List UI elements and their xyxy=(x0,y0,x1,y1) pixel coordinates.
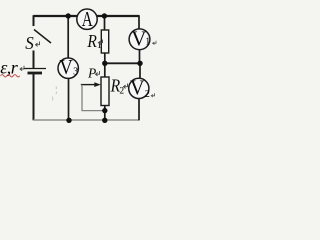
red squiggle under epsilon,r xyxy=(1,75,20,77)
voltmeter V1 circle xyxy=(129,29,150,50)
linebreak mark after P xyxy=(96,71,100,76)
svg-text:S: S xyxy=(25,33,34,53)
wire: V2 bottom lead xyxy=(138,99,140,121)
faint artifact dash upper xyxy=(55,87,57,95)
svg-text:V: V xyxy=(59,55,72,79)
wire: R2 top lead xyxy=(104,63,106,77)
voltmeter V2 (bottom right) circle xyxy=(129,78,149,98)
wire: left vertical stub above switch xyxy=(33,15,35,26)
svg-text:P: P xyxy=(87,65,96,80)
svg-text:R: R xyxy=(87,31,97,51)
wire: R1 bottom lead xyxy=(104,53,106,63)
node: V1 bottom / middle wire xyxy=(137,61,142,66)
linebreak mark after V2 xyxy=(151,93,154,97)
faint artifact dash lower xyxy=(52,97,54,101)
linebreak mark after R2 xyxy=(124,84,128,89)
node: wiper join on R2 bottom lead xyxy=(102,108,107,113)
wire: top wire from top-left corner to V1 corner xyxy=(34,15,140,17)
svg-text:1: 1 xyxy=(145,37,150,48)
node: R1 top at top wire xyxy=(102,13,107,18)
node: R2 bottom at bottom wire xyxy=(102,118,107,123)
wire: V3 top lead xyxy=(67,16,69,58)
battery long plate xyxy=(24,68,46,70)
wire: left vertical below battery to bottom corner xyxy=(33,74,35,120)
svg-text:2: 2 xyxy=(119,87,124,97)
wire: middle horizontal wire xyxy=(105,62,140,64)
svg-text:V: V xyxy=(131,27,146,51)
wiper connector wire down and right xyxy=(82,85,105,111)
node: V3 bottom at bottom wire xyxy=(66,118,71,123)
linebreak mark after V1 xyxy=(153,41,156,45)
svg-text:3: 3 xyxy=(73,66,78,77)
wire: V3 bottom lead xyxy=(68,78,70,120)
resistor R1 box xyxy=(101,30,108,53)
voltmeter V3 (middle) circle xyxy=(58,58,78,78)
resistor R2 box xyxy=(101,77,109,106)
node: V3 top at top wire xyxy=(66,13,71,18)
switch S blade xyxy=(34,30,51,44)
node: R1 bottom / middle wire xyxy=(102,61,107,66)
wire: V1 drop from top wire xyxy=(138,15,140,29)
wire: left vertical between switch and battery xyxy=(33,51,35,69)
wire: V2 top lead xyxy=(139,63,141,78)
svg-text:A: A xyxy=(82,7,93,31)
linebreak mark after R1 xyxy=(99,40,103,45)
svg-text:V: V xyxy=(130,76,145,100)
wire: R1 top lead xyxy=(104,16,106,30)
linebreak mark after S xyxy=(36,42,40,47)
potentiometer wiper arrow xyxy=(81,84,95,86)
battery short plate xyxy=(28,72,43,75)
wire: bottom gray wire xyxy=(34,119,140,121)
ammeter A circle xyxy=(77,9,97,29)
wire: V1 bottom lead xyxy=(139,50,141,64)
svg-text:2: 2 xyxy=(145,89,150,100)
wire: R2 bottom lead xyxy=(104,106,106,121)
linebreak mark after epsilon,r xyxy=(20,66,24,71)
